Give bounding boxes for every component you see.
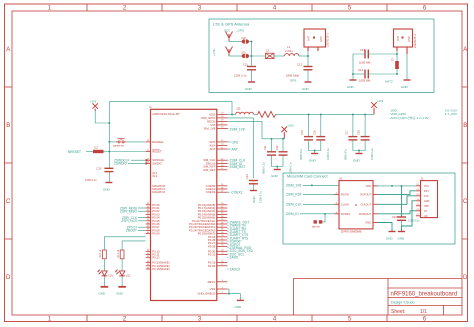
- ground LD1: [98, 287, 108, 296]
- svg-text:R14 1k: R14 1k: [117, 249, 120, 257]
- IC U2 SIM level shifter: [339, 177, 373, 233]
- net ZSIM_1V8: [227, 128, 244, 132]
- svg-text:1206 0.1u: 1206 0.1u: [370, 148, 374, 160]
- junction pair1: [308, 113, 322, 151]
- net GPS: [227, 140, 238, 144]
- net COEX2: [227, 191, 242, 195]
- wire GND shifter: [378, 223, 393, 232]
- svg-text:A: A: [6, 47, 10, 53]
- wire VDD rail: [276, 113, 375, 115]
- svg-text:ANT: ANT: [397, 36, 400, 41]
- resistor R11 zigzag: [258, 111, 276, 117]
- svg-text:C15: C15: [300, 130, 304, 135]
- svg-text:VCC: VCC: [224, 29, 231, 33]
- net ZSIM_IO: [227, 162, 242, 166]
- svg-text:D: D: [463, 275, 468, 281]
- net ZUART_RX: [227, 227, 247, 231]
- svg-text:VCC: VCC: [424, 185, 429, 188]
- wire module1 pin1: [307, 51, 309, 66]
- svg-text:XL2: XL2: [152, 174, 157, 178]
- junction VCC branch: [391, 185, 402, 187]
- pin arrows SWD: [146, 159, 149, 165]
- junction +3V3 corner: [108, 122, 110, 124]
- wire resistor to led: [121, 259, 123, 271]
- resistor R12: [86, 151, 146, 153]
- ground pair1: [309, 154, 318, 163]
- net ZSIM_1V8 sim: [286, 184, 339, 188]
- svg-text:GND: GND: [424, 200, 430, 203]
- junction button tap: [108, 141, 110, 143]
- wire VDD_GPIO caps: [272, 139, 284, 170]
- svg-text:C21: C21: [263, 145, 267, 150]
- inductor L1 2.2nH: [285, 45, 299, 56]
- svg-text:ZMFIO-SIM05MB: ZMFIO-SIM05MB: [341, 230, 362, 234]
- wire bypass cap drop: [401, 186, 403, 217]
- svg-text:pwrbtn-sw: pwrbtn-sw: [113, 145, 124, 148]
- svg-text:J11: J11: [236, 107, 241, 111]
- svg-text:ZADC: ZADC: [230, 256, 239, 260]
- svg-text:+LTE: +LTE: [212, 49, 216, 56]
- net ZWAKE_IN: [227, 224, 246, 228]
- IC U1 left pin stubs: [146, 142, 151, 269]
- capacitor C15 0805 47u: [299, 130, 313, 160]
- power +3V3 symbol X2: [371, 99, 383, 114]
- svg-text:J10: J10: [241, 36, 246, 40]
- wire diode stub: [322, 214, 325, 222]
- svg-text:P0.20: P0.20: [208, 264, 216, 268]
- svg-text:ZSPI_NCS: ZSPI_NCS: [121, 219, 137, 223]
- svg-text:C23: C23: [245, 174, 249, 179]
- svg-text:J12: J12: [94, 147, 99, 150]
- connector J3 microSIM socket: [421, 177, 438, 217]
- capacitor C17 0805 47u: [343, 130, 357, 160]
- title block: [294, 279, 463, 316]
- svg-text:1206 0.1u: 1206 0.1u: [408, 219, 420, 223]
- junction module feed: [307, 55, 309, 57]
- net ZSIM_CLK: [227, 159, 246, 163]
- section box LTE & GPS Antenna: [209, 19, 434, 93]
- svg-text:ZSWDIO: ZSWDIO: [114, 162, 127, 166]
- net ZGPO6: [227, 240, 240, 244]
- svg-text:1005 NM: 1005 NM: [359, 79, 371, 83]
- svg-text:MAGPIO2: MAGPIO2: [152, 190, 165, 194]
- svg-text:nRF9160_breakoutboard: nRF9160_breakoutboard: [391, 292, 458, 298]
- connector J3 pin stubs: [416, 186, 421, 216]
- IC U1 nRF9160 module body: [149, 106, 217, 301]
- svg-text:ZSIM_1V8: ZSIM_1V8: [230, 128, 245, 132]
- svg-text:GND: GND: [353, 159, 361, 163]
- svg-text:ZADC0: ZADC0: [230, 267, 241, 271]
- svg-text:GND: GND: [103, 188, 111, 192]
- IC U1 right pin numbers: [221, 113, 224, 294]
- capacitor C12 1806 180p: [286, 63, 313, 78]
- svg-text:LD2: LD2: [126, 275, 131, 278]
- svg-text:SWDIO: SWDIO: [152, 161, 162, 165]
- wire RSTOUT to connector: [378, 191, 417, 195]
- svg-text:ANT: ANT: [308, 36, 311, 41]
- wire led to ground: [103, 276, 105, 287]
- svg-text:C10: C10: [97, 166, 102, 170]
- wire connector GND: [402, 201, 417, 232]
- power +3V3 symbol X1: [90, 99, 98, 111]
- svg-text:RESV: RESV: [208, 280, 216, 284]
- svg-text:ZSIM_CLK: ZSIM_CLK: [286, 203, 302, 207]
- net ZSPI_CLK: [122, 216, 146, 220]
- capacitor C24 1206 0.1u: [392, 215, 420, 223]
- svg-text:CD: CD: [424, 215, 428, 218]
- junction reset node: [108, 151, 110, 153]
- svg-text:SIM_DET: SIM_DET: [203, 168, 215, 172]
- svg-text:ENABLE: ENABLE: [152, 140, 163, 144]
- svg-text:C18: C18: [357, 130, 361, 135]
- svg-text:MicroSIM Card Connect: MicroSIM Card Connect: [287, 174, 328, 178]
- frame row letters: [6, 47, 468, 281]
- svg-text:GND: GND: [252, 196, 256, 204]
- IC U2 pin names: [341, 184, 371, 225]
- ground reset cap: [103, 183, 112, 192]
- svg-text:A: A: [463, 47, 467, 53]
- junction VDD node: [231, 113, 233, 115]
- svg-text:GND: GND: [302, 87, 310, 91]
- svg-text:0805 0.1u: 0805 0.1u: [262, 162, 266, 174]
- svg-text:+3V3: +3V3: [90, 99, 97, 103]
- net ZSPI_MISO: [120, 210, 146, 214]
- IC U1 left pin names: [152, 140, 169, 271]
- svg-text:-COEX2: -COEX2: [231, 191, 243, 195]
- wire reset cap: [108, 152, 110, 183]
- svg-text:CLKOUT: CLKOUT: [360, 202, 371, 206]
- wire cap to ground: [401, 220, 403, 231]
- wire bead to coil: [274, 55, 285, 57]
- junction VSS: [228, 293, 230, 295]
- net ZADC0: [227, 267, 240, 271]
- capacitor C13 1005 NM: [359, 48, 371, 65]
- wire antenna feeds: [229, 42, 266, 57]
- wire resistor to led: [103, 259, 105, 271]
- svg-text:GND: GND: [235, 305, 243, 309]
- svg-text:ANT2: ANT2: [385, 80, 393, 84]
- net ZUART_TX: [227, 230, 246, 234]
- svg-text:VPP: VPP: [424, 205, 429, 208]
- LED LD1: [98, 270, 114, 278]
- antenna module U$1: [304, 29, 330, 51]
- svg-text:C11: C11: [243, 63, 248, 67]
- ground LD2: [116, 287, 126, 296]
- net ZI2C_SDA_TXD: [227, 249, 253, 253]
- svg-text:+3V3: +3V3: [288, 124, 295, 128]
- svg-text:P0.15(WAKE): P0.15(WAKE): [152, 267, 169, 271]
- svg-text:2JE7E15-1: 2JE7E15-1: [413, 34, 417, 48]
- antenna connector module U$2: [394, 29, 418, 54]
- ground capB: [302, 82, 312, 91]
- net ZSERIAL_RXD: [227, 246, 252, 250]
- svg-text:ZSIM_1V8: ZSIM_1V8: [286, 184, 301, 188]
- svg-text:_GPS: _GPS: [235, 29, 244, 33]
- svg-text:B: B: [6, 123, 10, 129]
- junction VDD_GPIO caps: [271, 138, 284, 168]
- junction cap rail nodes: [352, 53, 398, 75]
- capacitor C16 1206 0.1u: [312, 130, 330, 160]
- capacitor C18 1206 0.1u: [357, 130, 375, 160]
- wire coil to module: [299, 55, 308, 57]
- svg-text:C24: C24: [392, 215, 397, 219]
- ferrite bead L2: [266, 49, 275, 59]
- capacitor C10 1206 0.1u: [85, 166, 113, 182]
- ground capA: [245, 82, 255, 91]
- svg-text:RST: RST: [424, 190, 429, 193]
- net ZP0.07: [127, 226, 146, 230]
- svg-text:1206 0.1u: 1206 0.1u: [234, 74, 247, 78]
- wire DECO net: [227, 121, 284, 190]
- wire VDD_GPIO net: [227, 118, 253, 178]
- svg-text:LTE & GPS Antenna: LTE & GPS Antenna: [213, 22, 250, 27]
- wire VDD pin: [227, 113, 235, 115]
- svg-text:1206 0.1u: 1206 0.1u: [85, 178, 97, 182]
- wire capB: [307, 70, 309, 82]
- frame column numbers: [48, 6, 427, 323]
- svg-text:P0.09: P0.09: [152, 232, 160, 236]
- svg-text:+3V3: +3V3: [377, 99, 384, 103]
- svg-text:C17: C17: [344, 130, 348, 135]
- svg-text:ANT: ANT: [232, 147, 238, 151]
- svg-text:NRESET: NRESET: [68, 150, 81, 154]
- svg-text:GND: GND: [245, 87, 253, 91]
- wire CLKOUT to connector: [378, 196, 417, 205]
- wire led feed LD2: [122, 241, 146, 250]
- capacitor C22 1206 4.7u: [275, 145, 293, 174]
- svg-text:C14: C14: [358, 68, 364, 72]
- net ZI2C_SCL: [227, 252, 244, 256]
- capacitor C11 1206 0.1u: [234, 63, 256, 78]
- svg-text:COEX2: COEX2: [206, 190, 216, 194]
- resistor R13 1k: [99, 249, 106, 259]
- wire DATAOUT to connector: [378, 211, 417, 214]
- svg-text:GND: GND: [320, 36, 323, 42]
- IC U1 right pin stubs: [217, 114, 228, 293]
- svg-text:CLKIN: CLKIN: [341, 202, 349, 206]
- net ZSWDCLK: [114, 158, 146, 162]
- svg-text:GND: GND: [401, 85, 409, 89]
- svg-text:Sheet:: Sheet:: [391, 309, 405, 315]
- wire button to ENABLE: [109, 142, 145, 152]
- svg-text:P0.12: P0.12: [152, 256, 160, 260]
- net ZGPO7: [227, 243, 240, 247]
- svg-text:C12: C12: [297, 63, 303, 67]
- svg-text:1206 0.1u: 1206 0.1u: [326, 148, 330, 160]
- node GPS feed: [290, 79, 296, 83]
- capacitor C21 0805 0.1u: [262, 145, 277, 174]
- wire cap rails: [353, 54, 397, 80]
- ground VDD_GPIO caps: [271, 170, 281, 179]
- connector J3 pin numbers: [417, 184, 421, 216]
- svg-text:C: C: [6, 199, 11, 205]
- svg-text:GPS: GPS: [290, 79, 296, 83]
- wire VDD cap drops pair2: [353, 114, 365, 153]
- svg-text:VDD: VDD: [366, 184, 372, 188]
- svg-text:ZSPI_MISO: ZSPI_MISO: [120, 210, 138, 214]
- title block designer: [391, 301, 414, 305]
- net ANT: [227, 147, 238, 151]
- svg-text:uNRF9160-SICA-RT: uNRF9160-SICA-RT: [152, 112, 180, 116]
- wire VDD cap drops pair1: [309, 114, 321, 153]
- svg-text:GND: GND: [347, 85, 355, 89]
- net ZWAKE_OUT: [227, 220, 249, 224]
- svg-text:0805 47u: 0805 47u: [299, 149, 303, 160]
- connector J3 pin names: [424, 185, 430, 218]
- svg-text:GPS: GPS: [232, 140, 239, 144]
- ground antbox left: [347, 80, 357, 89]
- svg-text:C22: C22: [275, 145, 279, 150]
- svg-text:C16: C16: [312, 130, 316, 135]
- svg-text:RESET: RESET: [152, 150, 162, 154]
- svg-text:GND: GND: [398, 237, 406, 241]
- svg-text:anti-sw: anti-sw: [312, 226, 320, 229]
- svg-text:B: B: [463, 123, 467, 129]
- svg-text:1/1: 1/1: [420, 309, 427, 315]
- resistor R3 matching: [391, 59, 399, 70]
- svg-text:LD1: LD1: [108, 275, 113, 278]
- net ZUART_CTS: [227, 233, 248, 237]
- svg-text:0805 47u: 0805 47u: [343, 149, 347, 160]
- svg-text:1206 4.7u: 1206 4.7u: [289, 162, 293, 174]
- svg-text:1005 NM: 1005 NM: [359, 61, 371, 65]
- svg-text:1806 180p: 1806 180p: [286, 74, 300, 78]
- power +3V3 symbol X3: [282, 124, 295, 139]
- svg-text:C: C: [463, 199, 468, 205]
- title block sheet: [391, 309, 427, 315]
- svg-text:J20: J20: [241, 51, 246, 55]
- svg-text:Design Y.Sudo: Design Y.Sudo: [391, 301, 414, 305]
- net NRESET: [68, 150, 81, 154]
- push button S1: [113, 139, 126, 148]
- svg-text:ANT: ANT: [210, 147, 216, 151]
- svg-text:L2: L2: [266, 49, 270, 53]
- wire VCC to connector: [378, 185, 417, 187]
- junction diode tap: [311, 184, 326, 214]
- title block document name: [391, 292, 458, 298]
- capacitor J20: [241, 51, 249, 59]
- ground sim left: [386, 232, 396, 241]
- junction antenna node: [251, 41, 253, 57]
- net ZSPI_MOSI: [120, 206, 146, 210]
- LED LD2: [115, 270, 131, 278]
- net ZUART_RTS: [227, 236, 248, 240]
- svg-text:ZBOOT: ZBOOT: [126, 229, 137, 233]
- ground DECO cap: [250, 191, 257, 204]
- net ZSIM_CLK sim: [286, 203, 335, 207]
- svg-text:GND: GND: [98, 292, 106, 296]
- svg-text:VSS: VSS: [210, 287, 216, 291]
- net ZBOOT: [126, 229, 146, 233]
- ground VSS: [235, 300, 244, 309]
- svg-text:RSTOUT: RSTOUT: [360, 192, 371, 196]
- wire +3V3 to VDD: [95, 102, 232, 142]
- svg-text:RSTIN: RSTIN: [341, 192, 349, 196]
- antenna ANT_GPS: [226, 32, 233, 42]
- svg-text:GND_SHIELD: GND_SHIELD: [197, 292, 215, 296]
- svg-text:GND: GND: [116, 292, 124, 296]
- net ZSIM_RST: [227, 165, 245, 169]
- svg-text:GND: GND: [271, 174, 279, 178]
- svg-text:D: D: [6, 275, 11, 281]
- antenna ANT_LTE: [226, 47, 233, 57]
- svg-text:ZSIM_RST: ZSIM_RST: [230, 165, 246, 169]
- ground antbox right: [401, 80, 411, 89]
- svg-text:DATAOUT: DATAOUT: [359, 212, 371, 216]
- diode D1 anti-surge: [312, 220, 322, 228]
- svg-text:DATAIN: DATAIN: [341, 212, 350, 216]
- svg-text:1206 4.7u: 1206 4.7u: [259, 191, 263, 203]
- IC U2 pin numbers: [336, 193, 338, 214]
- net ZADC: [227, 256, 238, 260]
- svg-text:SIM_1V8: SIM_1V8: [204, 126, 216, 130]
- svg-text:2JE7E15-1: 2JE7E15-1: [326, 33, 330, 47]
- wire led feed LD1: [104, 237, 145, 250]
- wire J11 to R: [254, 113, 258, 115]
- svg-text:P0.28: P0.28: [208, 244, 216, 248]
- svg-text:I/O: I/O: [424, 210, 427, 213]
- junction pair2: [352, 113, 366, 151]
- svg-text:CLK: CLK: [424, 195, 429, 198]
- svg-text:GND: GND: [365, 220, 371, 224]
- net ZSIM_IO sim: [286, 212, 335, 216]
- wire module2 pins: [397, 51, 407, 80]
- IC U1 left pin numbers: [147, 140, 150, 269]
- svg-text:AVIOとLDOで作る 1.7~1.9V: AVIOとLDOで作る 1.7~1.9V: [391, 115, 429, 120]
- svg-text:C13: C13: [360, 48, 366, 52]
- svg-text:GND: GND: [309, 159, 317, 163]
- svg-text:2.2nH: 2.2nH: [285, 49, 292, 53]
- IC U1 right pin names: [189, 112, 216, 295]
- ground sim right: [398, 232, 406, 241]
- capacitor J10: [241, 36, 249, 44]
- net ZSPI_NCS: [121, 219, 145, 223]
- wire capA: [251, 56, 253, 82]
- inductor J11: [236, 107, 254, 115]
- note voltage ranges: [391, 108, 458, 120]
- svg-text:ZSIM_IO: ZSIM_IO: [286, 212, 299, 216]
- capacitor C23 1206 4.7u: [245, 174, 263, 203]
- svg-text:GND: GND: [386, 237, 394, 241]
- svg-text:ZSIM_RST: ZSIM_RST: [286, 193, 302, 197]
- resistor R14 1k: [117, 249, 124, 259]
- capacitor C14 1005 NM: [358, 68, 371, 83]
- wire VSS to ground: [227, 289, 240, 300]
- ground pair2: [353, 154, 363, 163]
- node ANT2: [385, 80, 393, 84]
- net ZSWDIO: [114, 162, 146, 166]
- svg-text:1.7~3.6V: 1.7~3.6V: [445, 112, 457, 116]
- net ZSIM_RST sim: [286, 193, 335, 197]
- wire led to ground: [121, 276, 123, 287]
- svg-text:P0.31: P0.31: [208, 253, 216, 257]
- svg-text:GND: GND: [408, 36, 411, 42]
- svg-text:R13 1k: R13 1k: [99, 249, 102, 257]
- section box MicroSIM Card Connect: [283, 173, 455, 244]
- IC U2 pin stubs: [335, 186, 378, 223]
